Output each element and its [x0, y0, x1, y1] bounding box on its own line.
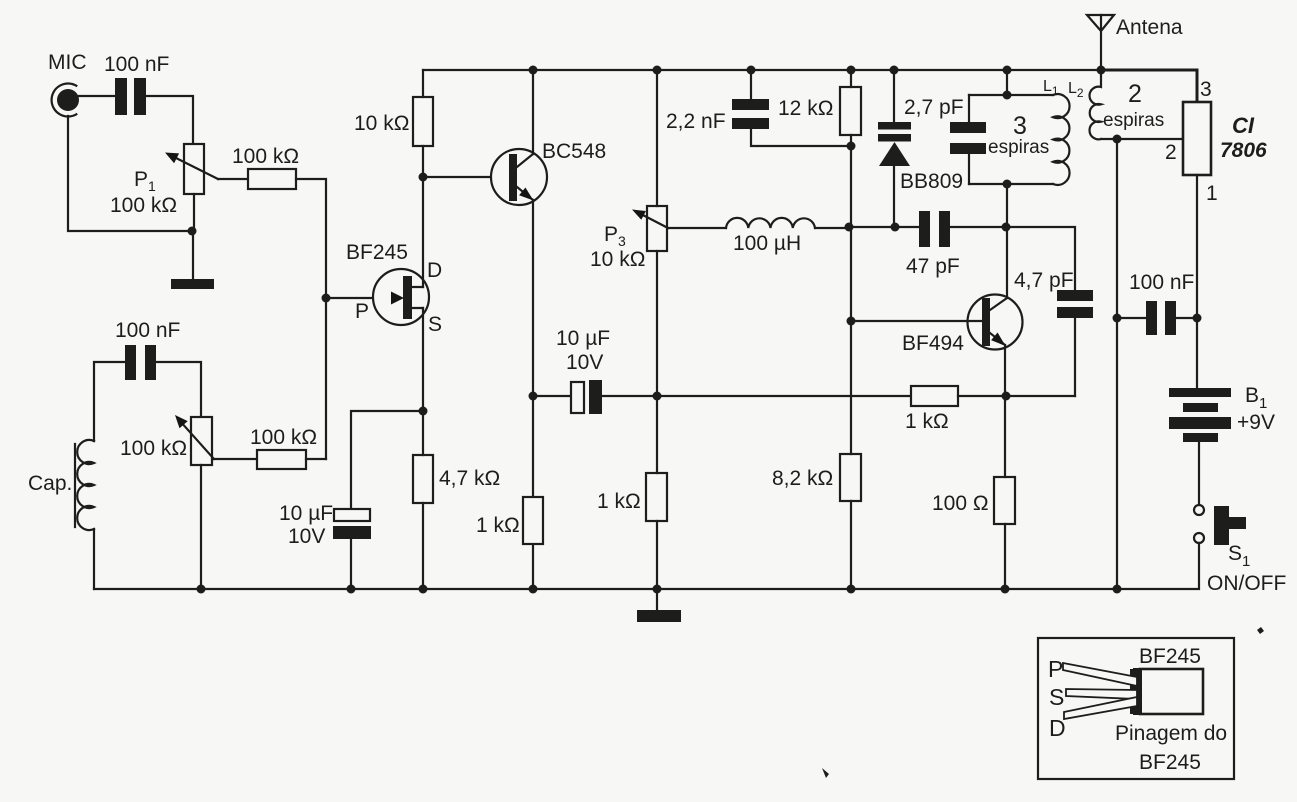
potentiometer P3 body [647, 206, 667, 251]
pinout body left edge fill [1133, 668, 1142, 715]
wire C5 bottom to R7 bottom [751, 129, 851, 146]
resistor R5 1 kOhm [523, 497, 543, 544]
svg-text:2: 2 [1165, 141, 1177, 164]
wire C7 to 4,7pF corner [950, 227, 1075, 290]
svg-text:BF245: BF245 [346, 241, 408, 264]
node 100nF left junction dot [1113, 314, 1122, 323]
wire R8 to 4,7pF bottom [958, 395, 1075, 397]
svg-text:S: S [428, 313, 442, 336]
svg-text:47 pF: 47 pF [906, 255, 960, 278]
coil L1 bottom wire [969, 183, 1053, 185]
wire node C from source line [351, 411, 423, 509]
wire down to base node [850, 227, 852, 321]
coil L2 winding [1090, 70, 1101, 139]
svg-text:espiras: espiras [988, 137, 1049, 158]
svg-text:BC548: BC548 [542, 140, 606, 163]
svg-text:4,7 pF: 4,7 pF [1014, 269, 1074, 292]
node collector junction dot [1002, 223, 1011, 232]
svg-text:100 nF: 100 nF [115, 319, 180, 342]
node BF494 base junction dot [847, 317, 856, 326]
wire node B to BC548 base [423, 176, 509, 178]
svg-text:10 kΩ: 10 kΩ [590, 248, 645, 271]
coil Cap. winding [77, 440, 94, 530]
wire P2 wiper to R2 [214, 458, 257, 460]
MIC microphone symbol [52, 84, 79, 117]
resistor R10 100 Ohm [994, 477, 1015, 524]
wire bus to R7 [850, 70, 852, 87]
resistor R8 1 kOhm horizontal [911, 386, 958, 406]
svg-text:BF494: BF494 [902, 332, 964, 355]
wire base node to R9 and bus [850, 321, 852, 589]
svg-text:1 kΩ: 1 kΩ [476, 514, 520, 537]
pinout lead S [1066, 689, 1137, 699]
pinout lead P [1063, 663, 1137, 686]
svg-text:100 nF: 100 nF [1129, 271, 1194, 294]
wire MIC down to node A [68, 116, 192, 231]
wire drain up to node B [422, 177, 424, 287]
svg-text:100 nF: 100 nF [104, 53, 169, 76]
wire node D column to C9 [1117, 317, 1146, 319]
wire emitter node to R5 and bus [532, 396, 534, 589]
node 100nF right junction dot [1193, 314, 1202, 323]
svg-text:BB809: BB809 [900, 170, 963, 193]
svg-text:BF245: BF245 [1139, 645, 1201, 668]
node L1 bottom junction dot [1003, 180, 1012, 189]
svg-text:10V: 10V [288, 525, 325, 548]
svg-text:1: 1 [1206, 182, 1218, 205]
wire R2 to gate column [306, 458, 326, 460]
transistor Q3 BF494 [968, 295, 1023, 350]
svg-text:8,2 kΩ: 8,2 kΩ [772, 467, 833, 490]
svg-text:7806: 7806 [1220, 139, 1267, 162]
capacitor C3 10 uF electrolytic [333, 509, 371, 539]
svg-text:100 kΩ: 100 kΩ [110, 194, 177, 217]
svg-text:2,2 nF: 2,2 nF [666, 110, 726, 133]
wire C6 verticals to L1 loop [968, 95, 970, 184]
antenna symbol [1087, 15, 1114, 70]
wire gate to JFET [326, 297, 393, 299]
svg-text:4,7 kΩ: 4,7 kΩ [439, 467, 500, 490]
node R7 bottom junction dot [847, 142, 856, 151]
svg-text:10 µF: 10 µF [556, 327, 610, 350]
wire R7 bottom down to L3 line [850, 135, 852, 227]
svg-text:100 Ω: 100 Ω [932, 492, 989, 515]
wire C9 to pin1 column [1176, 317, 1197, 319]
wire bottom bus [94, 588, 1117, 590]
coil Cap. core bar [74, 444, 76, 527]
potentiometer P2 wiper arrow [175, 415, 214, 459]
node emitter junction dot [529, 392, 538, 401]
wire L3 to 47pF [815, 227, 919, 228]
svg-text:+9V: +9V [1237, 411, 1275, 434]
capacitor C1 100 nF [115, 78, 146, 115]
resistor R6 1 kOhm [646, 473, 667, 521]
wire node A down to ground [192, 231, 194, 279]
node antenna junction dot [1097, 66, 1106, 75]
node BB809 bottom junction dot [891, 223, 900, 232]
node A junction dot [188, 227, 197, 236]
svg-text:10 µF: 10 µF [279, 502, 333, 525]
svg-text:Cap.: Cap. [28, 472, 72, 495]
wire R1 to gate column [296, 179, 326, 459]
svg-text:12 kΩ: 12 kΩ [778, 97, 833, 120]
IC U1 7806 body [1183, 102, 1211, 175]
node L3/R9 junction dot [845, 223, 854, 232]
node top bus dots [529, 66, 538, 75]
wire R3 to node B [422, 146, 424, 177]
resistor R1 100 kOhm [248, 169, 296, 189]
switch S1 contacts [1194, 505, 1204, 543]
inductor L3 100 uH [726, 218, 815, 228]
node emitter/R10 junction dot [1002, 392, 1011, 401]
svg-text:CI: CI [1232, 113, 1255, 138]
node L1 top junction dot [1003, 91, 1012, 100]
svg-text:100 kΩ: 100 kΩ [232, 145, 299, 168]
svg-text:MIC: MIC [48, 51, 87, 74]
wire bus corner to R3 [422, 70, 424, 97]
wire P3 bottom to node [656, 251, 658, 396]
wire node to R6 and bus [656, 396, 658, 589]
wire battery to S1 [1198, 442, 1200, 504]
capacitor C4 10 uF electrolytic [571, 380, 602, 414]
resistor R3 10 kOhm [413, 97, 433, 146]
capacitor C5 2,2 nF [732, 99, 769, 129]
wire P1 wiper to R1 [218, 178, 248, 180]
svg-text:ON/OFF: ON/OFF [1207, 572, 1286, 595]
svg-text:P: P [355, 300, 369, 323]
node D junction dot [1113, 135, 1122, 144]
wire L1 bottom to collector node [1006, 184, 1008, 227]
wire emitter node to R10 and bus [1004, 396, 1006, 589]
wire base node to BF494 [851, 320, 982, 322]
wire C2 right to P2 top [156, 362, 201, 417]
wire MIC to C1 [79, 95, 115, 97]
resistor R9 8,2 kOhm [840, 454, 861, 501]
svg-text:S: S [1049, 684, 1064, 710]
node B junction dot [419, 173, 428, 182]
svg-text:2,7 pF: 2,7 pF [904, 96, 964, 119]
wire emitter node to C4 [533, 395, 571, 397]
svg-text:100 kΩ: 100 kΩ [250, 426, 317, 449]
node P3 bottom junction dot [653, 392, 662, 401]
wire top bus [423, 69, 1101, 71]
wire BC548 collector to bus [532, 70, 534, 154]
svg-text:100 µH: 100 µH [733, 232, 801, 255]
coil L1 top wire [969, 94, 1053, 96]
svg-text:100 kΩ: 100 kΩ [120, 437, 187, 460]
wire P2 bottom to bus [200, 465, 202, 589]
capacitor C6 2,7 pF [950, 122, 986, 154]
wire BF494 collector up [1006, 227, 1008, 298]
coil L1 winding [1053, 94, 1070, 185]
varicap D1 BB809 [878, 70, 911, 227]
wire node C to R4 and bus [422, 411, 424, 589]
pinout transistor body [1140, 669, 1203, 714]
wire C8 bottom to emitter line [1074, 318, 1076, 396]
svg-text:2: 2 [1128, 80, 1142, 108]
svg-text:P: P [1048, 656, 1063, 682]
svg-text:1 kΩ: 1 kΩ [597, 490, 641, 513]
svg-text:3: 3 [1013, 112, 1027, 140]
potentiometer P3 wiper arrow [632, 210, 668, 229]
battery B1 [1169, 388, 1231, 442]
svg-text:Antena: Antena [1116, 16, 1183, 39]
stray mark tick [822, 768, 829, 778]
potentiometer P1 body [184, 144, 204, 194]
node bottom bus dots [197, 585, 206, 594]
node gate junction dot [322, 294, 331, 303]
wire top bus right thick segment [1101, 70, 1197, 102]
transistor Q1 BF245 JFET [373, 269, 429, 325]
wire C2 left to coil top [94, 362, 125, 441]
resistor R2 100 kOhm [257, 450, 306, 469]
capacitor C8 4,7 pF [1057, 290, 1093, 318]
stray mark diamond [1257, 627, 1264, 634]
wire L2 bottom to node D [1101, 138, 1117, 140]
wire bus to C5 [750, 70, 752, 99]
wire C4 to R8 [602, 395, 911, 397]
svg-text:10 kΩ: 10 kΩ [354, 112, 409, 135]
resistor R7 12 kOhm [840, 87, 861, 135]
svg-text:3: 3 [1200, 78, 1212, 101]
wire node D to CI pin 2 [1117, 138, 1183, 140]
svg-text:10V: 10V [566, 351, 603, 374]
capacitor C2 100 nF [125, 345, 156, 380]
svg-text:D: D [427, 259, 442, 282]
wire BF494 emitter down [1004, 345, 1006, 396]
potentiometer P2 body 100 kOhm [191, 417, 212, 465]
svg-text:espiras: espiras [1103, 110, 1164, 131]
svg-text:BF245: BF245 [1139, 751, 1201, 774]
wire bus to P3 top [656, 70, 658, 206]
wire coil bottom to bus [93, 529, 95, 589]
switch S1 lever [1214, 506, 1246, 545]
wire C1 to P1 top [146, 96, 193, 144]
svg-text:D: D [1049, 715, 1066, 741]
capacitor C9 100 nF [1146, 301, 1176, 335]
wire C3 to bus [350, 539, 352, 589]
pinout box frame [1038, 638, 1234, 779]
capacitor C7 47 pF [919, 211, 950, 247]
wire bus stub to L1 top [1006, 70, 1008, 95]
wire node D down to bus [1116, 139, 1118, 589]
pinout lead D [1064, 697, 1137, 719]
wire BC548 emitter down [532, 200, 534, 396]
svg-text:1 kΩ: 1 kΩ [905, 410, 949, 433]
node C junction dot [419, 407, 428, 416]
pinout body black wedge [1130, 669, 1143, 714]
resistor R4 4,7 kOhm [413, 455, 433, 503]
wire source down to node C [422, 308, 424, 411]
svg-text:Pinagem do: Pinagem do [1115, 722, 1227, 745]
ground G2 [637, 589, 681, 622]
transistor Q2 BC548 [491, 149, 547, 205]
wire CI pin 1 down to battery [1196, 175, 1198, 388]
ground G1 [171, 279, 214, 289]
wire P1 bottom to node A [193, 194, 195, 231]
wire P3 wiper to L3 [668, 227, 726, 229]
potentiometer P1 wiper arrow [165, 153, 218, 180]
wire S1 to bottom bus corner [1117, 543, 1199, 589]
